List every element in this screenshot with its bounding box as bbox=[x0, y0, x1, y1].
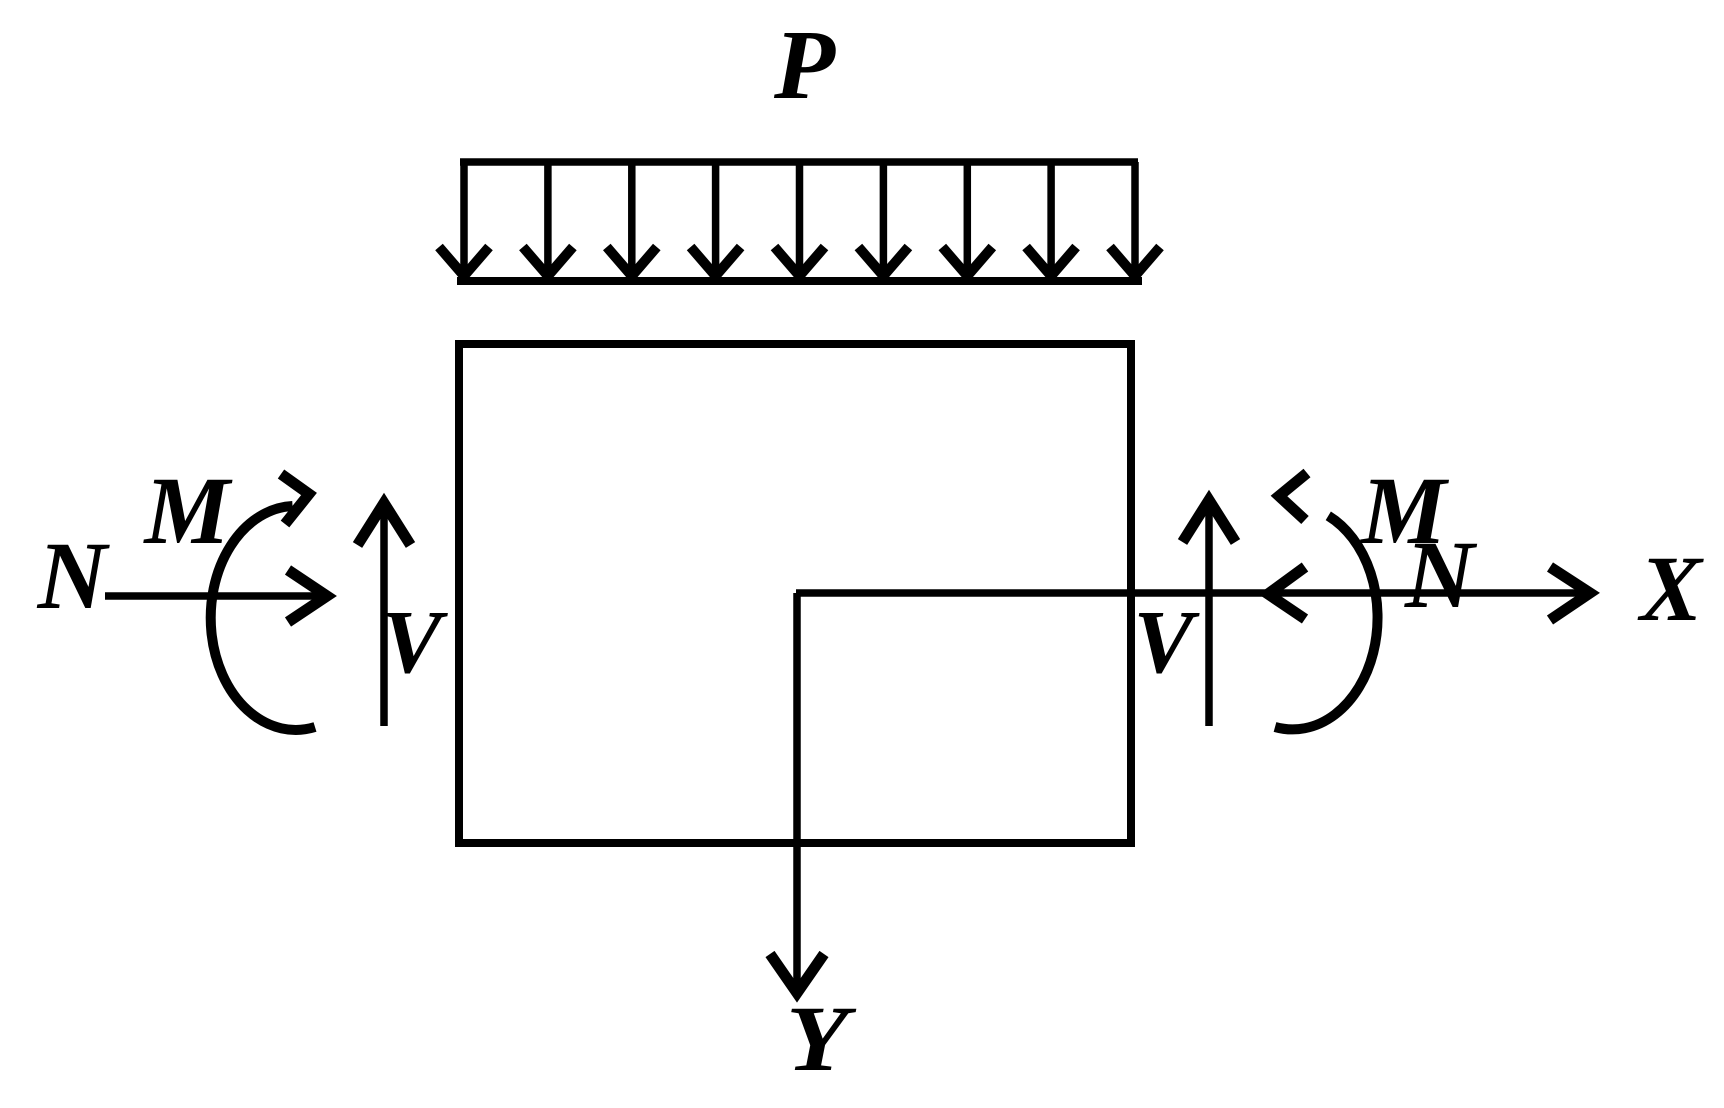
distributed load arrow 6 bbox=[858, 162, 908, 276]
shear V right arrow bbox=[1183, 500, 1236, 726]
label N left bbox=[37, 522, 111, 629]
svg-text:Y: Y bbox=[786, 988, 857, 1091]
label X bbox=[1637, 538, 1704, 641]
X axis line bbox=[796, 567, 1590, 620]
moment M left arc bbox=[211, 474, 315, 730]
svg-text:X: X bbox=[1637, 538, 1704, 641]
label M left bbox=[143, 457, 234, 564]
distributed load arrow 7 bbox=[942, 162, 992, 276]
distributed load arrow 1 bbox=[439, 162, 489, 276]
distributed load arrow 4 bbox=[691, 162, 741, 276]
svg-text:P: P bbox=[773, 9, 836, 120]
distributed load arrow 9 bbox=[1110, 162, 1160, 276]
label M right bbox=[1359, 457, 1450, 564]
label V left bbox=[382, 593, 449, 692]
moment M right arc bbox=[1275, 473, 1378, 729]
distributed load arrow 5 bbox=[775, 162, 825, 276]
svg-text:V: V bbox=[1134, 593, 1201, 692]
label N right bbox=[1404, 521, 1478, 628]
shear V left arrow bbox=[358, 503, 411, 726]
svg-text:M: M bbox=[143, 457, 234, 564]
Y axis line bbox=[770, 593, 824, 993]
axial force N left arrow bbox=[105, 570, 330, 622]
distributed load P: top line bbox=[460, 158, 1138, 166]
label Y bbox=[786, 988, 857, 1091]
svg-text:M: M bbox=[1359, 457, 1450, 564]
distributed load P: bottom line bbox=[457, 277, 1142, 285]
label V right bbox=[1134, 593, 1201, 692]
beam element rectangle bbox=[459, 344, 1131, 843]
distributed load arrow 8 bbox=[1026, 162, 1076, 276]
axial force N right arrowhead bbox=[1268, 567, 1305, 619]
distributed load arrow 2 bbox=[523, 162, 573, 276]
label P bbox=[773, 9, 836, 120]
distributed load arrow 3 bbox=[607, 162, 657, 276]
svg-text:V: V bbox=[382, 593, 449, 692]
svg-text:N: N bbox=[37, 522, 111, 629]
